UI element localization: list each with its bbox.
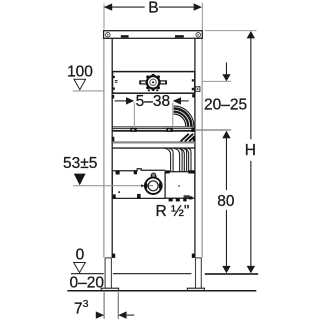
- bar clamp block right: [166, 128, 172, 132]
- svg-text:5–38: 5–38: [136, 93, 170, 110]
- leg mark below rail left: [112, 95, 115, 98]
- level mark 100: [67, 63, 104, 91]
- bar clamp block left: [130, 128, 136, 132]
- leg foot-top marks: [112, 254, 115, 258]
- dimension 20-25: [204, 62, 247, 190]
- fitting level extension line: [203, 80, 232, 82]
- svg-text:R ½": R ½": [156, 203, 190, 220]
- diagonal hatch at band right end: [181, 134, 195, 142]
- floor line: [67, 290, 256, 292]
- pipe bend arcs upper right: [174, 106, 194, 126]
- svg-text:100: 100: [67, 63, 93, 80]
- leg mark below rail right: [192, 94, 195, 97]
- svg-text:0–20: 0–20: [69, 275, 104, 292]
- right base plate: [187, 288, 204, 291]
- water supply fitting: [139, 74, 167, 92]
- left frame leg: [104, 31, 112, 257]
- dimension 7_3 bottom: [74, 292, 134, 319]
- horizontal bar lines: [113, 127, 195, 131]
- small box with dot on right leg: [195, 87, 200, 92]
- dimension B: [104, 0, 202, 30]
- supply tubes curving into connection box: [165, 148, 192, 171]
- upper traverse rail with fitting: [113, 72, 195, 94]
- lower band line: [113, 147, 195, 149]
- level mark 53±5: [63, 155, 97, 185]
- svg-text:0: 0: [76, 246, 85, 263]
- frame top rail: [104, 31, 203, 39]
- right foot tube: [196, 258, 202, 289]
- svg-text:80: 80: [217, 193, 235, 210]
- top extension line to H: [205, 30, 257, 32]
- zero level line: [71, 273, 258, 275]
- bar level extension line: [195, 129, 231, 131]
- left foot tube: [105, 258, 111, 289]
- level line 53±5 leader: [73, 185, 145, 187]
- dimension 80: [217, 193, 235, 273]
- left base plate: [101, 288, 118, 291]
- drain pipe clamp: [141, 173, 162, 194]
- svg-text:B: B: [148, 0, 158, 17]
- siphon bracket plate: [112, 169, 165, 199]
- leg mid marks: [112, 137, 115, 142]
- svg-text:20–25: 20–25: [204, 96, 247, 113]
- connection box R 1/2: [165, 170, 195, 201]
- dimension 5-38: [115, 93, 189, 127]
- bar end block: [191, 128, 194, 132]
- level mark 0: [74, 246, 86, 272]
- svg-text:H: H: [245, 142, 256, 159]
- svg-text:73: 73: [74, 298, 89, 318]
- svg-text:53±5: 53±5: [63, 155, 97, 172]
- right frame leg: [195, 31, 202, 257]
- gray profile band: [113, 141, 195, 143]
- dimension H: [245, 31, 256, 273]
